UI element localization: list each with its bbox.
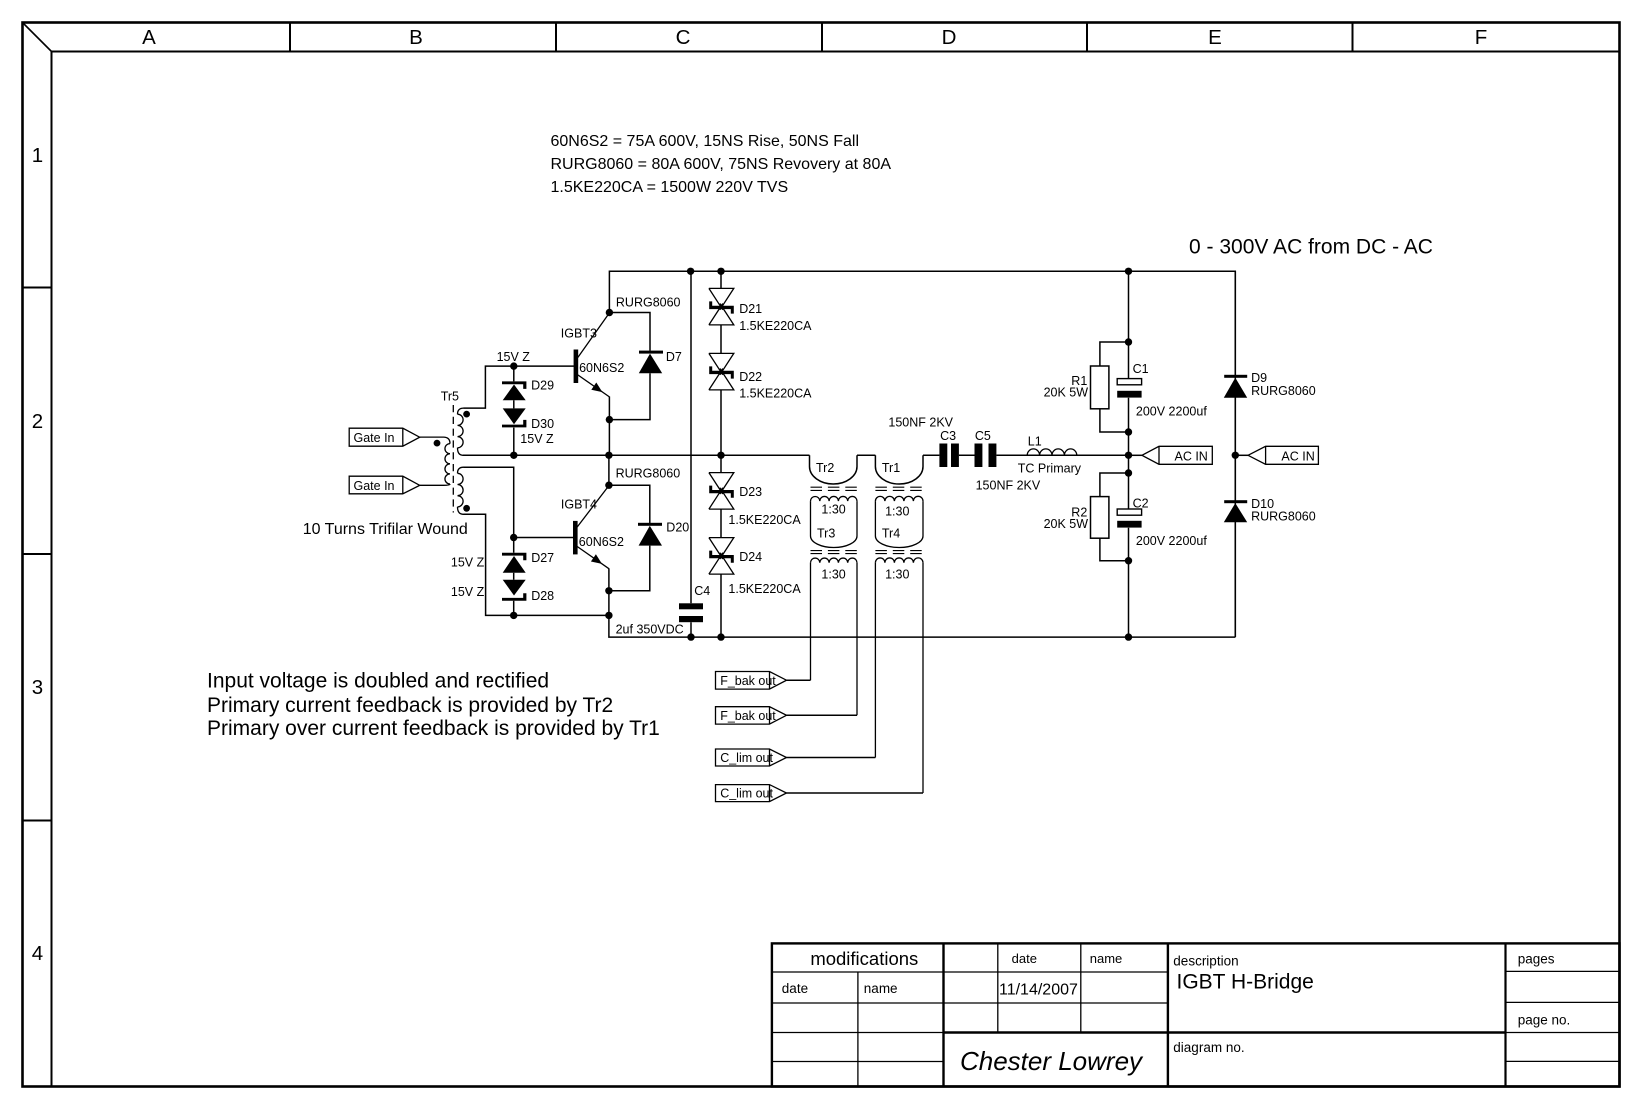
svg-text:C: C	[676, 26, 691, 49]
svg-text:F_bak out: F_bak out	[720, 709, 776, 723]
svg-text:name: name	[1090, 951, 1123, 966]
svg-text:Primary current feedback is pr: Primary current feedback is provided by …	[207, 694, 613, 717]
svg-text:RURG8060 = 80A 600V, 75NS Revo: RURG8060 = 80A 600V, 75NS Revovery at 80…	[551, 156, 892, 173]
title block texts	[782, 948, 1570, 1076]
TVS D23	[709, 473, 801, 527]
svg-text:15V Z: 15V Z	[497, 350, 531, 364]
transformer Tr5	[420, 390, 470, 515]
svg-text:2: 2	[32, 410, 43, 433]
svg-text:D23: D23	[739, 485, 762, 499]
wire TVS chain vertical	[720, 271, 722, 637]
svg-text:1.5KE220CA: 1.5KE220CA	[739, 387, 812, 401]
svg-text:TC Primary: TC Primary	[1018, 462, 1082, 476]
note input voltage	[207, 669, 660, 740]
TVS D21	[709, 288, 812, 333]
wire IGBT4 collector D20 loop	[609, 455, 650, 591]
wire top bus	[609, 271, 1235, 637]
svg-text:Input voltage is doubled and r: Input voltage is doubled and rectified	[207, 669, 549, 692]
capacitor C1	[1117, 362, 1207, 419]
port Gate In 2	[349, 476, 420, 494]
svg-text:Tr3: Tr3	[817, 527, 835, 541]
svg-text:20K 5W: 20K 5W	[1044, 386, 1089, 400]
svg-text:20K 5W: 20K 5W	[1044, 517, 1089, 531]
svg-text:200V 2200uf: 200V 2200uf	[1136, 405, 1207, 419]
note 10 turns	[303, 521, 468, 538]
wire D9 D10 vertical (part of top bus run)	[1234, 271, 1236, 637]
current transformer Tr3	[811, 501, 858, 715]
port C_lim out 1	[716, 749, 876, 766]
svg-text:D9: D9	[1251, 371, 1267, 385]
svg-text:name: name	[864, 981, 898, 996]
svg-text:15V Z: 15V Z	[451, 556, 485, 570]
transistor IGBT4	[561, 486, 624, 569]
svg-text:Tr1: Tr1	[882, 461, 900, 475]
svg-text:pages: pages	[1518, 952, 1555, 967]
svg-text:1.5KE220CA: 1.5KE220CA	[728, 513, 801, 527]
svg-text:D21: D21	[739, 302, 762, 316]
svg-text:1:30: 1:30	[885, 505, 909, 519]
svg-text:C_lim out: C_lim out	[720, 751, 773, 765]
port Gate In 1	[349, 428, 420, 446]
svg-text:date: date	[782, 981, 808, 996]
svg-text:Chester Lowrey: Chester Lowrey	[960, 1046, 1144, 1076]
wire D27 D28 branch	[513, 538, 515, 616]
svg-text:0 - 300V AC from DC - AC: 0 - 300V AC from DC - AC	[1189, 236, 1433, 259]
svg-text:E: E	[1208, 26, 1222, 49]
current transformer Tr2	[810, 455, 858, 516]
svg-text:C2: C2	[1133, 497, 1149, 511]
svg-text:AC IN: AC IN	[1281, 449, 1314, 463]
svg-text:Tr5: Tr5	[441, 390, 459, 404]
title block	[772, 943, 1620, 1086]
svg-text:IGBT3: IGBT3	[561, 326, 597, 340]
svg-text:AC IN: AC IN	[1175, 449, 1208, 463]
svg-text:15V Z: 15V Z	[451, 585, 485, 599]
svg-text:RURG8060: RURG8060	[1251, 384, 1316, 398]
svg-text:D29: D29	[531, 379, 554, 393]
current transformer Tr4	[875, 501, 923, 793]
svg-text:date: date	[1012, 951, 1037, 966]
svg-text:150NF 2KV: 150NF 2KV	[976, 479, 1041, 493]
wire mid bus	[463, 454, 1129, 456]
wire D29 D30 branch	[513, 366, 515, 455]
svg-text:15V Z: 15V Z	[520, 432, 554, 446]
port F_bak out 2	[716, 707, 858, 724]
wire IGBT3 emitter D7 loop	[609, 313, 650, 456]
svg-text:C1: C1	[1133, 362, 1149, 376]
svg-text:D22: D22	[739, 370, 762, 384]
svg-text:4: 4	[32, 942, 43, 965]
svg-text:1.5KE220CA: 1.5KE220CA	[739, 319, 812, 333]
svg-text:modifications: modifications	[810, 948, 918, 969]
frame column letters	[142, 26, 1487, 49]
svg-text:RURG8060: RURG8060	[1251, 510, 1316, 524]
svg-text:1:30: 1:30	[885, 568, 909, 582]
svg-text:D: D	[942, 26, 957, 49]
capacitor C2	[1117, 497, 1207, 549]
svg-text:description: description	[1173, 954, 1238, 969]
svg-text:page no.: page no.	[1518, 1013, 1571, 1028]
wire bottom bus	[609, 568, 1235, 637]
zener D27	[451, 551, 554, 573]
inductor L1	[1018, 435, 1082, 476]
diode D20	[616, 467, 690, 546]
frame row numbers	[32, 144, 43, 965]
current transformer Tr1	[875, 455, 923, 518]
port AC IN right	[1235, 446, 1318, 464]
resistor R2	[1044, 497, 1109, 539]
svg-text:L1: L1	[1028, 435, 1042, 449]
svg-text:Tr4: Tr4	[882, 527, 900, 541]
svg-text:11/14/2007: 11/14/2007	[999, 982, 1078, 999]
svg-text:D20: D20	[666, 521, 689, 535]
svg-text:60N6S2: 60N6S2	[579, 361, 624, 375]
svg-text:D27: D27	[531, 551, 554, 565]
zener D28	[451, 580, 554, 604]
svg-text:1:30: 1:30	[821, 568, 845, 582]
svg-text:D24: D24	[739, 550, 762, 564]
port F_bak out 1	[716, 672, 811, 690]
svg-text:C_lim out: C_lim out	[720, 787, 773, 801]
transistor IGBT3	[561, 313, 625, 397]
note 0-300V	[1189, 236, 1433, 259]
svg-text:C3: C3	[940, 429, 956, 443]
svg-text:D28: D28	[531, 589, 554, 603]
svg-text:2uf 350VDC: 2uf 350VDC	[616, 623, 684, 637]
svg-text:IGBT4: IGBT4	[561, 498, 597, 512]
zener D29	[497, 350, 554, 400]
capacitor C4	[616, 584, 711, 637]
resistor R1	[1044, 366, 1109, 409]
svg-text:200V 2200uf: 200V 2200uf	[1136, 534, 1207, 548]
svg-text:Gate In: Gate In	[354, 479, 395, 493]
svg-text:150NF 2KV: 150NF 2KV	[888, 416, 953, 430]
svg-text:60N6S2: 60N6S2	[579, 535, 624, 549]
svg-text:Primary over current feedback: Primary over current feedback is provide…	[207, 717, 660, 740]
svg-text:10 Turns Trifilar Wound: 10 Turns Trifilar Wound	[303, 521, 468, 538]
svg-text:D7: D7	[666, 350, 682, 364]
capacitor C5	[975, 429, 1041, 493]
zener D30	[502, 408, 554, 446]
junction dots	[510, 268, 1239, 641]
svg-text:RURG8060: RURG8060	[616, 296, 681, 310]
svg-text:F: F	[1475, 26, 1488, 49]
svg-text:D30: D30	[531, 417, 554, 431]
diode D7	[616, 296, 682, 374]
svg-text:A: A	[142, 26, 156, 49]
svg-text:1:30: 1:30	[821, 503, 845, 517]
svg-text:C4: C4	[694, 584, 710, 598]
wire R1 C1 top	[1100, 271, 1129, 455]
svg-text:B: B	[409, 26, 423, 49]
svg-text:60N6S2 = 75A 600V, 15NS Rise,: 60N6S2 = 75A 600V, 15NS Rise, 50NS Fall	[551, 133, 860, 150]
TVS D22	[709, 353, 812, 400]
svg-text:3: 3	[32, 676, 43, 699]
wire R2 C2	[1100, 455, 1129, 637]
port AC IN left	[1129, 446, 1212, 464]
wire IGBT4 gate	[464, 467, 574, 537]
diode D9	[1224, 371, 1316, 398]
svg-text:1.5KE220CA = 1500W 220V TVS: 1.5KE220CA = 1500W 220V TVS	[551, 179, 789, 196]
svg-text:1: 1	[32, 144, 43, 167]
svg-text:diagram no.: diagram no.	[1173, 1040, 1244, 1055]
wire C4 vertical	[690, 271, 692, 637]
diode D10	[1224, 497, 1316, 524]
svg-text:IGBT H-Bridge: IGBT H-Bridge	[1177, 971, 1314, 994]
port C_lim out 2	[716, 785, 924, 802]
notes text	[551, 133, 892, 196]
svg-text:RURG8060: RURG8060	[616, 467, 681, 481]
wire IGBT3 gate	[464, 366, 575, 408]
TVS D24	[709, 538, 801, 596]
svg-text:C5: C5	[975, 429, 991, 443]
wire zener return	[464, 514, 609, 615]
capacitor C3	[888, 416, 959, 468]
svg-text:Gate In: Gate In	[354, 431, 395, 445]
svg-text:1.5KE220CA: 1.5KE220CA	[728, 582, 801, 596]
svg-text:F_bak out: F_bak out	[720, 674, 776, 688]
svg-text:Tr2: Tr2	[816, 461, 834, 475]
